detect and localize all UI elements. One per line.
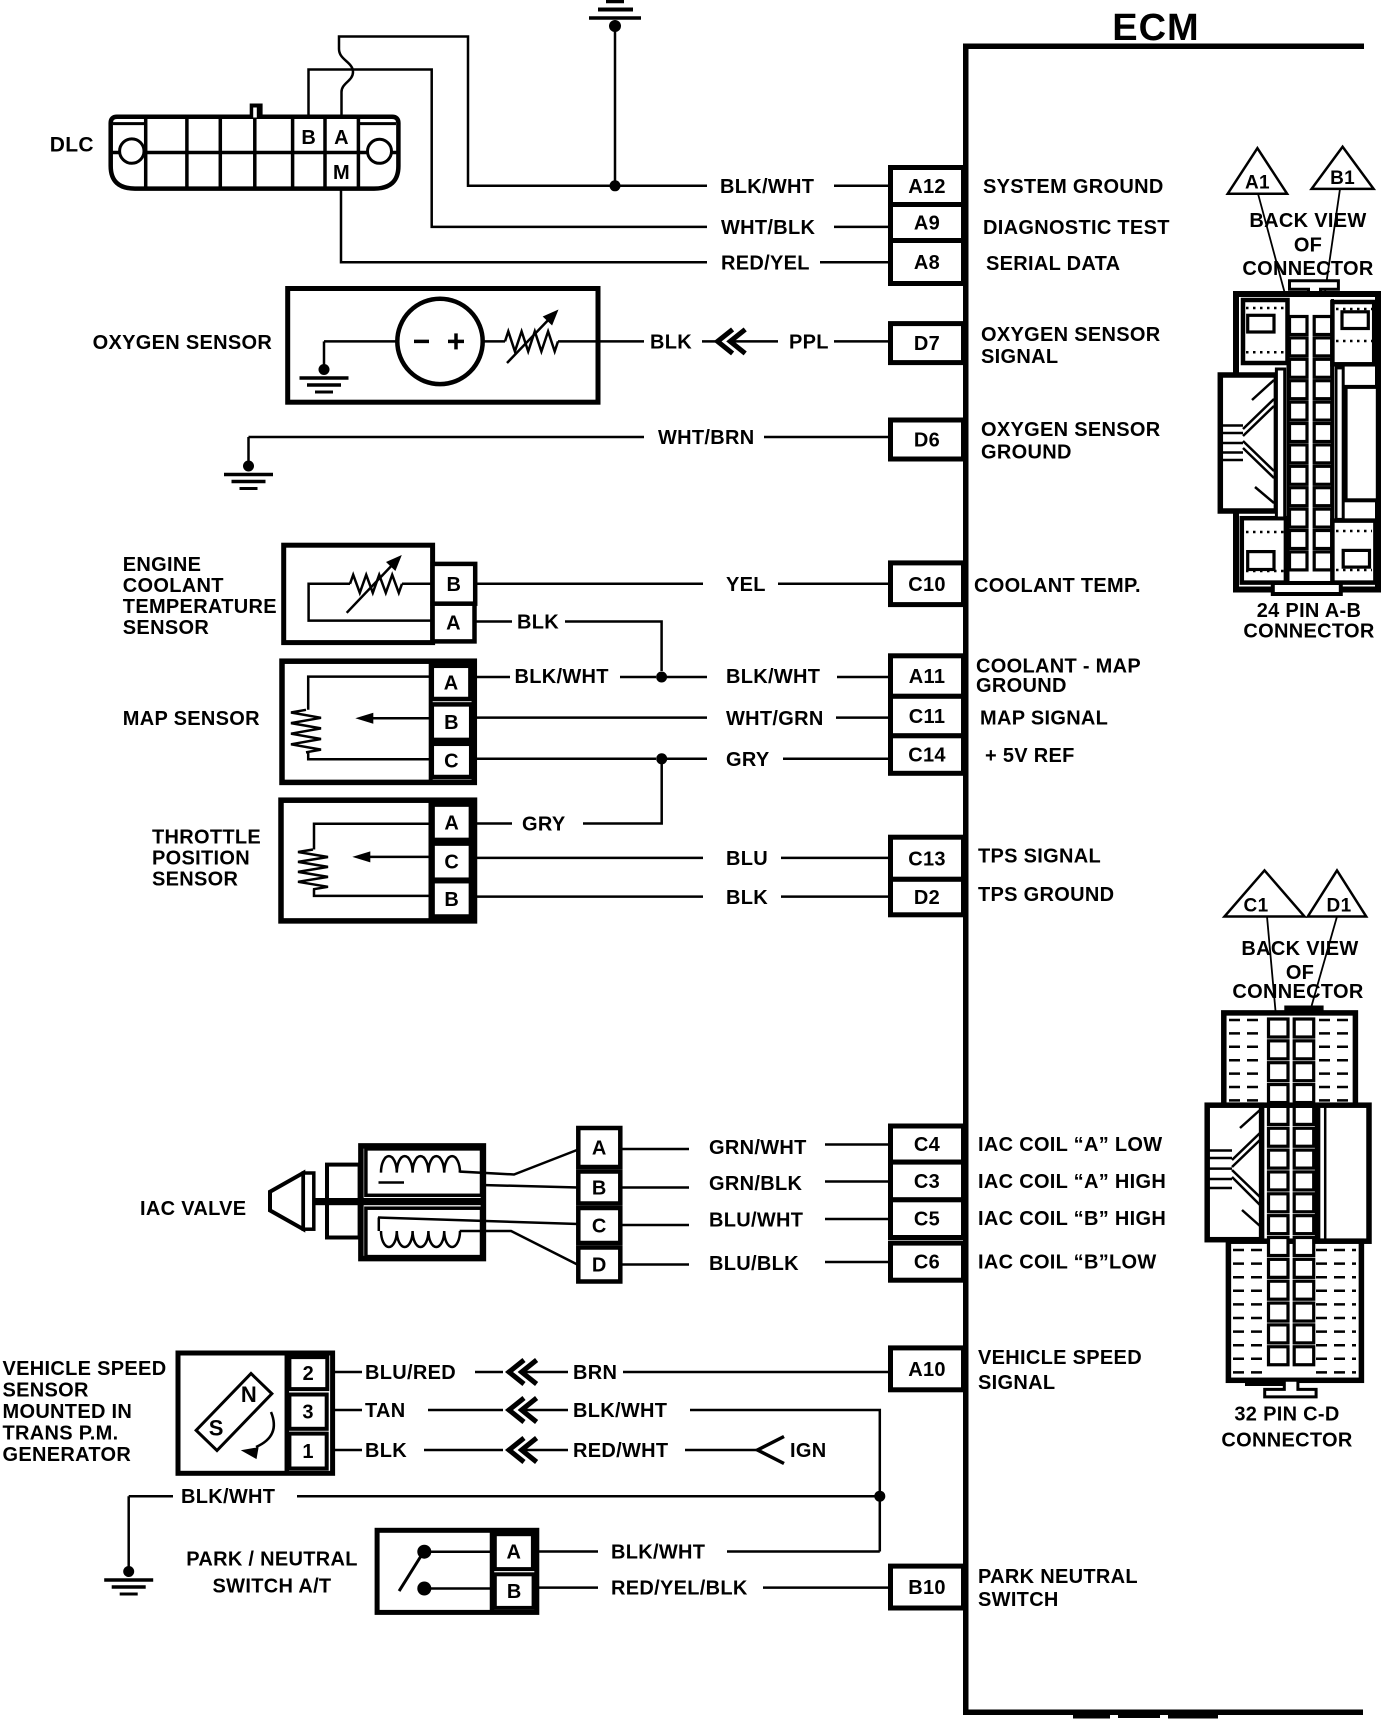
svg-text:WHT/GRN: WHT/GRN [726,708,824,730]
svg-text:DLC: DLC [50,134,94,157]
svg-text:B: B [592,1178,607,1200]
svg-text:SWITCH: SWITCH [978,1589,1059,1611]
svg-text:IAC COIL “B”LOW: IAC COIL “B”LOW [978,1252,1157,1274]
svg-text:D6: D6 [914,430,940,452]
svg-text:SENSOR: SENSOR [123,617,210,639]
svg-text:SERIAL DATA: SERIAL DATA [986,253,1120,275]
svg-text:IAC COIL “A” HIGH: IAC COIL “A” HIGH [978,1171,1166,1193]
svg-text:D7: D7 [914,333,940,355]
svg-text:D2: D2 [914,887,940,909]
svg-text:VEHICLE SPEED: VEHICLE SPEED [978,1347,1142,1369]
svg-text:C13: C13 [908,848,946,870]
svg-text:MOUNTED IN: MOUNTED IN [3,1401,133,1423]
svg-text:BLK/WHT: BLK/WHT [181,1486,275,1508]
svg-text:DIAGNOSTIC TEST: DIAGNOSTIC TEST [983,217,1170,239]
svg-text:TAN: TAN [365,1400,406,1422]
svg-text:TPS SIGNAL: TPS SIGNAL [978,846,1101,868]
svg-text:1: 1 [302,1441,313,1463]
svg-text:SIGNAL: SIGNAL [978,1372,1055,1394]
svg-text:C4: C4 [914,1134,941,1156]
svg-text:C11: C11 [909,706,946,728]
svg-text:C: C [592,1216,607,1238]
svg-text:B1: B1 [1330,168,1355,189]
svg-text:N: N [241,1382,257,1407]
svg-text:A12: A12 [908,176,946,198]
svg-text:YEL: YEL [726,574,766,596]
svg-text:WHT/BRN: WHT/BRN [658,427,755,449]
svg-text:POSITION: POSITION [152,848,250,870]
svg-text:B: B [301,127,316,149]
svg-text:COOLANT TEMP.: COOLANT TEMP. [974,575,1141,597]
svg-text:RED/YEL: RED/YEL [721,253,810,275]
svg-text:BLK: BLK [517,612,559,634]
svg-text:BLK: BLK [365,1440,407,1462]
svg-text:A10: A10 [908,1359,946,1381]
svg-text:RED/YEL/BLK: RED/YEL/BLK [611,1578,748,1600]
svg-text:BLK: BLK [726,887,768,909]
svg-text:IAC COIL “B” HIGH: IAC COIL “B” HIGH [978,1208,1166,1230]
svg-text:A: A [444,672,459,694]
svg-text:IAC COIL “A” LOW: IAC COIL “A” LOW [978,1134,1162,1156]
svg-text:3: 3 [302,1402,313,1424]
svg-text:WHT/BLK: WHT/BLK [721,217,816,239]
svg-text:THROTTLE: THROTTLE [152,827,261,849]
svg-text:SENSOR: SENSOR [152,869,239,891]
svg-text:BLU/WHT: BLU/WHT [709,1210,803,1232]
svg-text:32 PIN C-D: 32 PIN C-D [1234,1404,1339,1426]
svg-text:BLK/WHT: BLK/WHT [515,666,609,688]
svg-text:A11: A11 [909,666,946,688]
svg-text:A: A [446,613,461,635]
svg-text:OF: OF [1294,235,1322,257]
svg-text:D1: D1 [1327,896,1352,917]
svg-text:SWITCH A/T: SWITCH A/T [213,1575,332,1597]
svg-text:B: B [444,889,459,911]
svg-text:C3: C3 [914,1171,940,1193]
svg-text:SIGNAL: SIGNAL [981,346,1058,368]
svg-text:SENSOR: SENSOR [3,1380,90,1402]
svg-text:GRY: GRY [726,749,770,771]
svg-text:A1: A1 [1245,173,1270,194]
svg-text:CONNECTOR: CONNECTOR [1232,981,1363,1003]
svg-text:B: B [507,1581,522,1603]
svg-text:IAC VALVE: IAC VALVE [140,1198,246,1220]
svg-text:BLU: BLU [726,848,768,870]
svg-text:ECM: ECM [1112,7,1199,49]
svg-text:24 PIN A-B: 24 PIN A-B [1257,600,1362,622]
svg-text:BLK/WHT: BLK/WHT [720,176,814,198]
svg-text:A8: A8 [914,252,940,274]
svg-text:B: B [447,574,462,596]
svg-text:PPL: PPL [789,332,829,354]
svg-text:C1: C1 [1244,896,1269,917]
svg-text:C: C [444,750,459,772]
svg-text:IGN: IGN [790,1440,826,1462]
svg-text:RED/WHT: RED/WHT [573,1440,668,1462]
svg-text:C: C [444,852,459,874]
svg-text:OXYGEN SENSOR: OXYGEN SENSOR [981,324,1161,346]
svg-text:GRY: GRY [522,814,566,836]
svg-text:C14: C14 [908,745,946,767]
svg-text:BLK/WHT: BLK/WHT [573,1400,667,1422]
svg-text:COOLANT: COOLANT [123,575,224,597]
svg-text:BLK: BLK [650,332,692,354]
svg-text:BACK VIEW: BACK VIEW [1249,210,1366,232]
svg-text:A: A [592,1138,607,1160]
svg-text:BLU/BLK: BLU/BLK [709,1253,799,1275]
svg-text:PARK NEUTRAL: PARK NEUTRAL [978,1566,1138,1588]
svg-text:CONNECTOR: CONNECTOR [1242,258,1373,280]
svg-text:MAP SIGNAL: MAP SIGNAL [980,707,1108,729]
svg-text:GRN/WHT: GRN/WHT [709,1137,807,1159]
svg-text:M: M [333,162,350,184]
svg-text:PARK / NEUTRAL: PARK / NEUTRAL [186,1549,358,1571]
svg-text:GENERATOR: GENERATOR [3,1444,132,1466]
svg-text:SYSTEM GROUND: SYSTEM GROUND [983,176,1164,198]
svg-text:TEMPERATURE: TEMPERATURE [123,596,277,618]
svg-text:BLK/WHT: BLK/WHT [726,666,820,688]
svg-text:OXYGEN SENSOR: OXYGEN SENSOR [981,419,1161,441]
svg-text:A: A [334,127,349,149]
svg-text:BLK/WHT: BLK/WHT [611,1542,705,1564]
svg-text:BACK VIEW: BACK VIEW [1241,938,1358,960]
svg-text:BLU/RED: BLU/RED [365,1362,456,1384]
svg-text:C6: C6 [914,1252,940,1274]
svg-text:CONNECTOR: CONNECTOR [1243,621,1374,643]
svg-text:B: B [444,712,459,734]
svg-text:VEHICLE SPEED: VEHICLE SPEED [3,1358,167,1380]
svg-text:GRN/BLK: GRN/BLK [709,1173,802,1195]
svg-text:OXYGEN SENSOR: OXYGEN SENSOR [93,332,273,354]
svg-text:B10: B10 [908,1577,946,1599]
svg-text:A9: A9 [914,213,940,235]
svg-text:TPS GROUND: TPS GROUND [978,884,1114,906]
svg-text:S: S [209,1416,224,1441]
svg-text:A: A [506,1542,521,1564]
svg-text:D: D [592,1255,607,1277]
svg-text:GROUND: GROUND [981,442,1072,464]
svg-text:2: 2 [303,1363,314,1385]
svg-text:TRANS P.M.: TRANS P.M. [3,1423,119,1445]
svg-text:C5: C5 [914,1209,940,1231]
svg-text:BRN: BRN [573,1362,617,1384]
svg-text:+ 5V REF: + 5V REF [985,745,1075,767]
svg-text:ENGINE: ENGINE [123,554,201,576]
svg-text:A: A [444,812,459,834]
svg-text:GROUND: GROUND [976,675,1067,697]
svg-text:MAP SENSOR: MAP SENSOR [123,708,260,730]
svg-text:CONNECTOR: CONNECTOR [1221,1429,1352,1451]
svg-text:C10: C10 [908,574,946,596]
